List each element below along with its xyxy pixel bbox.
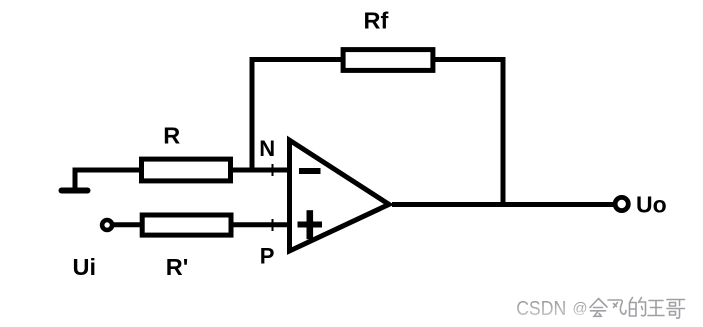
- svg-text:Ui: Ui: [73, 254, 97, 280]
- terminal Uo: [615, 197, 628, 210]
- pin tick N: [272, 164, 274, 176]
- svg-text:@: @: [573, 300, 588, 317]
- svg-text:Uo: Uo: [636, 192, 667, 218]
- resistor R': [142, 215, 231, 235]
- watermark hanzi fei: [608, 300, 626, 314]
- watermark hanzi hui: [590, 299, 607, 317]
- op-amp U1: [290, 140, 390, 251]
- svg-text:CSDN: CSDN: [516, 297, 566, 320]
- wire feedback loop: up from inverting node, across top, down to output: [252, 60, 503, 205]
- pin tick P: [272, 219, 274, 231]
- wire output: [392, 202, 616, 207]
- watermark hanzi ge: [667, 300, 685, 319]
- terminal Ui: [102, 220, 112, 230]
- svg-text:R: R: [163, 123, 180, 149]
- watermark hanzi de: [630, 298, 646, 317]
- svg-text:N: N: [259, 136, 275, 161]
- wire from ground to inverting input N: [75, 170, 289, 190]
- wire from input Ui to non-inverting input P: [107, 222, 289, 227]
- svg-text:R': R': [166, 254, 189, 280]
- svg-text:Rf: Rf: [364, 8, 389, 34]
- svg-text:P: P: [260, 244, 275, 269]
- op-amp plus sign: [298, 210, 323, 239]
- resistor Rf: [343, 50, 433, 71]
- watermark hanzi wang: [648, 301, 664, 316]
- op-amp minus sign: [299, 168, 321, 174]
- resistor R: [142, 159, 231, 181]
- ground: [62, 188, 88, 194]
